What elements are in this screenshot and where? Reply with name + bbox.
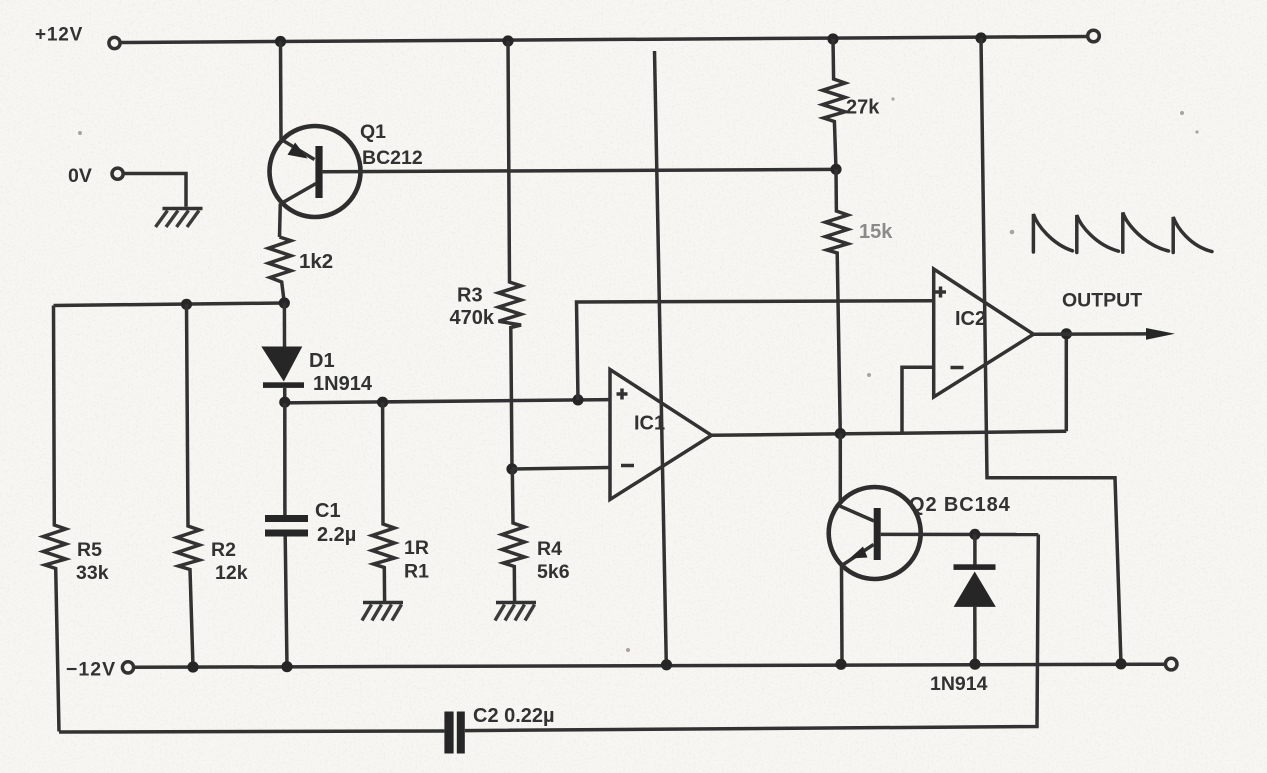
svg-text:470k: 470k (450, 307, 495, 329)
svg-text:5k6: 5k6 (537, 561, 570, 583)
svg-text:OUTPUT: OUTPUT (1062, 290, 1142, 312)
svg-text:R4: R4 (537, 538, 562, 560)
svg-text:R1: R1 (404, 561, 429, 583)
svg-text:1k2: 1k2 (299, 250, 333, 273)
svg-text:0V: 0V (68, 165, 92, 187)
svg-text:15k: 15k (859, 221, 893, 243)
svg-text:12k: 12k (215, 562, 248, 584)
svg-text:−12V: −12V (66, 659, 116, 681)
svg-text:R2: R2 (211, 539, 236, 561)
svg-text:BC212: BC212 (362, 147, 423, 169)
svg-text:R5: R5 (77, 539, 102, 561)
svg-text:1R: 1R (404, 537, 429, 559)
svg-text:D1: D1 (309, 350, 335, 372)
svg-text:IC1: IC1 (634, 413, 665, 435)
svg-text:Q2 BC184: Q2 BC184 (909, 494, 1011, 516)
svg-text:IC2: IC2 (955, 308, 986, 330)
svg-text:R3: R3 (457, 285, 483, 307)
svg-text:+12V: +12V (35, 25, 83, 46)
svg-text:27k: 27k (846, 97, 880, 119)
svg-text:1N914: 1N914 (930, 673, 988, 695)
svg-text:2.2µ: 2.2µ (317, 524, 356, 546)
svg-text:1N914: 1N914 (313, 373, 373, 395)
svg-text:C1: C1 (315, 500, 341, 522)
svg-text:Q1: Q1 (360, 121, 386, 143)
svg-text:C2 0.22µ: C2 0.22µ (473, 705, 555, 727)
svg-text:33k: 33k (76, 562, 109, 584)
